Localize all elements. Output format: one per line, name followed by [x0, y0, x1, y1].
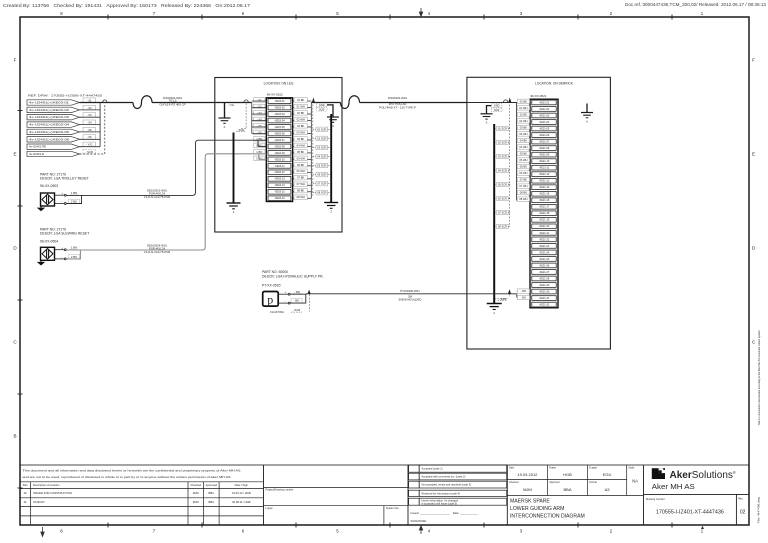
screen label 08 SCR [316, 191, 328, 195]
fold mark bottom right [701, 526, 704, 529]
ground symbol DERRICK top-right (chassis) [581, 104, 593, 124]
svg-text:-XE21-01: -XE21-01 [539, 101, 550, 104]
svg-text:-XE03-08: -XE03-08 [274, 145, 285, 148]
wire screen collector to ground (left, thick) [233, 133, 235, 204]
screen label 01 SCR [316, 127, 328, 131]
field Scale [628, 467, 638, 484]
svg-text:-XE21-31: -XE21-31 [539, 297, 550, 300]
svg-text:Approved: Approved [549, 481, 560, 484]
conductor label 1 BN (sensor 0503) [70, 191, 79, 195]
svg-text:OLFLEX-PZ 400 CP: OLFLEX-PZ 400 CP [159, 103, 185, 107]
terminal -XE03-05 [268, 125, 291, 130]
wire fan terminals to outgoing cable (right) [293, 101, 312, 198]
terminal -XE21-03 [532, 113, 556, 118]
label GND at DERRICK entry [491, 104, 502, 108]
svg-text:Rev: Rev [23, 483, 28, 487]
svg-text:05 WH: 05 WH [519, 158, 527, 162]
svg-text:Accepted (code 1): Accepted (code 1) [422, 467, 443, 471]
svg-text:p: p [267, 293, 273, 307]
svg-text:-XE21-19: -XE21-19 [539, 219, 550, 222]
fold mark arrow bottom left [41, 527, 44, 537]
sensor 96-XX-0504 part text [40, 228, 89, 244]
pressure transmitter PT-XX-0520 [263, 292, 279, 307]
terminal strip 96-XX-0521 outline [530, 99, 558, 308]
svg-text:B: B [13, 434, 16, 439]
svg-text:07 WH: 07 WH [519, 184, 527, 188]
conductor label 2 BU at -XE03-08 [254, 143, 265, 147]
grid reference letters left edge [13, 58, 17, 439]
svg-text:19.03.12 / HGB: 19.03.12 / HGB [232, 491, 251, 495]
cable label DE100321-W01 [144, 188, 170, 199]
off-page reference pointer 4x-IJ2401(+)XE03-05 [27, 129, 80, 134]
wire screen collector to ground (right, thick) [330, 114, 332, 203]
grid reference numbers bottom edge [60, 529, 704, 534]
svg-text:05 SCR: 05 SCR [317, 164, 326, 168]
svg-text:POLYRAD XT - 125 TYPE P: POLYRAD XT - 125 TYPE P [379, 105, 416, 109]
svg-text:- 01: - 01 [87, 98, 92, 102]
svg-text:-XE21-18: -XE21-18 [539, 212, 550, 215]
svg-text:03 WH: 03 WH [297, 130, 305, 134]
svg-text:PT-XX-0520: PT-XX-0520 [262, 283, 281, 287]
svg-text:is accepted until issue (code: is accepted until issue (code 5) [422, 501, 458, 505]
svg-text:96-XX-0503: 96-XX-0503 [40, 184, 58, 188]
conductor label 01 BK at -XE21-01 [517, 99, 529, 103]
off-page reference pointer 4x-IJ2401(+)XE03-02 [27, 107, 80, 112]
svg-text:E.appd: E.appd [589, 467, 597, 470]
conductor label 05 BK at -XE21-09 [517, 151, 529, 155]
grid tick marks left border [18, 111, 23, 489]
screen wire (dashed) inside LEG box left [241, 104, 246, 129]
svg-text:-XE03-11: -XE03-11 [274, 165, 285, 168]
terminal -XE21-22 [532, 237, 556, 242]
conductor label -RD at -XE21-31 [517, 289, 529, 293]
svg-text:- 03: - 03 [87, 113, 92, 117]
svg-text:- 04: - 04 [87, 121, 92, 125]
ground symbol DERRICK bottom [487, 304, 502, 316]
svg-text:-XE21-10: -XE21-10 [539, 160, 550, 163]
wire main multicore bus to ON LEG box [80, 102, 133, 104]
terminal -XE21-25 [532, 257, 556, 262]
terminal -XE21-29 [532, 283, 556, 288]
svg-text:PART NO: 50000: PART NO: 50000 [262, 270, 288, 274]
svg-text:-XE03-04: -XE03-04 [274, 119, 285, 122]
svg-text:4x-IJ2401(+)XE03-04: 4x-IJ2401(+)XE03-04 [29, 123, 70, 127]
conductor label 03 WH at -XE21-06 [517, 132, 529, 136]
cable label W100322-W01 POLYRAD [379, 96, 416, 109]
svg-text:-XE03-09: -XE03-09 [274, 152, 285, 155]
svg-text:-XE21-09: -XE21-09 [539, 154, 550, 157]
wire label 04 [83, 120, 96, 125]
terminal -XE21-12 [532, 172, 556, 177]
wire label Y/G [83, 142, 96, 147]
svg-text:-XE21-29: -XE21-29 [539, 284, 550, 287]
chassis ground sensor 0503 [37, 206, 45, 211]
conductor label 04 WH at -XE21-08 [517, 145, 529, 149]
screen pigtail arc at DERRICK entry [504, 100, 508, 103]
conductor label - 02 at -XE03-02 [254, 104, 265, 108]
wire GND conductor to ground (derrick top-left) [487, 106, 492, 114]
svg-text:07 WH: 07 WH [297, 182, 305, 186]
svg-text:03 SCR: 03 SCR [498, 155, 507, 159]
acceptance code labels [422, 467, 472, 506]
svg-text:-XE21-32: -XE21-32 [539, 303, 550, 306]
svg-text:Description of revision: Description of revision [33, 483, 60, 487]
svg-text:50926-MOULDED: 50926-MOULDED [399, 298, 422, 302]
disclaimer text [23, 469, 241, 480]
wire stubs RD/BU to terminals 31-32 [516, 291, 518, 297]
svg-text:01 BK: 01 BK [297, 98, 305, 102]
terminal -XE21-01 [532, 100, 556, 105]
svg-text:04 WH: 04 WH [519, 145, 527, 149]
terminal -XE21-31 [532, 296, 556, 301]
wire label 01 [83, 98, 96, 103]
wire transmitter pair to derrick [290, 294, 467, 303]
ground symbol LEG box top-right [327, 117, 339, 128]
terminal -XE21-17 [532, 204, 556, 209]
terminal -XE03-13 [268, 176, 291, 181]
svg-text:-XE03-05: -XE03-05 [274, 126, 285, 129]
svg-text:06 SCR: 06 SCR [498, 197, 507, 201]
conductor label 08 BK at -XE03-15 [294, 188, 307, 192]
svg-text:MJM: MJM [193, 500, 200, 504]
screen label 02 SCR (derrick) [497, 140, 509, 144]
svg-text:-XE21-16: -XE21-16 [539, 199, 550, 202]
svg-text:-XE21-23: -XE21-23 [539, 245, 550, 248]
cable label W100322-W01 OLFLEX [159, 96, 185, 106]
wire cable to LEG terminal box [152, 102, 252, 104]
svg-text:Format: Format [589, 481, 597, 484]
svg-text:DESCR: LGA SLEWING RESET: DESCR: LGA SLEWING RESET [40, 232, 89, 236]
logo / number divider [644, 494, 750, 525]
revision table grid [20, 482, 264, 525]
svg-text:04 BK: 04 BK [297, 137, 305, 141]
revision table header [23, 483, 249, 487]
svg-text:DESCR: LGA TROLLEY RESET: DESCR: LGA TROLLEY RESET [40, 176, 89, 180]
conductor label 05 BK at -XE03-09 [294, 150, 307, 154]
svg-text:1 BN: 1 BN [71, 191, 77, 195]
conductor label 04 WH at -XE03-08 [294, 143, 307, 147]
conductor label 1 BN at -XE03-07 [254, 137, 265, 141]
svg-text:05 WH: 05 WH [297, 156, 305, 160]
svg-text:-XE03-10: -XE03-10 [274, 158, 285, 161]
svg-text:Drawn: Drawn [549, 467, 557, 470]
conductor label 07 BK at -XE03-13 [294, 176, 307, 180]
terminal -XE21-02 [532, 107, 556, 112]
revision row 01 AS BUILT [24, 500, 251, 504]
field Format [589, 481, 610, 492]
field Date [509, 467, 538, 477]
svg-text:- Y/G: - Y/G [86, 143, 92, 147]
svg-text:MAERSK SPARE: MAERSK SPARE [510, 498, 550, 504]
svg-text:-XE03-13: -XE03-13 [274, 178, 285, 181]
fold mark arrow top center [419, 8, 422, 17]
conductor label 1 BN (sensor 0504) [70, 246, 79, 250]
svg-text:08 BK: 08 BK [297, 189, 305, 193]
screen label 06 SCR (derrick) [497, 196, 509, 200]
terminal -XE21-20 [532, 224, 556, 229]
svg-text:-XE03-03: -XE03-03 [274, 113, 285, 116]
svg-text:MJM: MJM [193, 491, 200, 495]
terminal -XE21-27 [532, 270, 556, 275]
svg-text:-XE21-04: -XE21-04 [539, 121, 550, 124]
svg-text:SCR: SCR [494, 108, 500, 112]
svg-text:+: + [285, 290, 287, 294]
screen label 06 SCR [316, 172, 328, 176]
screen label 08 SCR (derrick) [497, 224, 509, 228]
terminal -XE03-08 [268, 144, 291, 149]
terminal -XE21-05 [532, 126, 556, 131]
chassis ground sensor 0504 [37, 260, 45, 265]
terminal -XE21-13 [532, 178, 556, 183]
svg-text:01 SCR: 01 SCR [317, 127, 326, 131]
conductor label -BU (transmitter) [291, 298, 302, 303]
svg-text:-XE21-26: -XE21-26 [539, 264, 550, 267]
terminal -XE21-21 [532, 231, 556, 236]
label -SCR floating [291, 308, 302, 312]
off-page reference pointer 4x-IJ2401(+)XE03-04 [27, 122, 80, 127]
svg-text:-XE21-21: -XE21-21 [539, 232, 550, 235]
wire sensor 0503 pair [66, 140, 215, 203]
svg-text:Doc.ref.:3000447436,TCM_200,02: Doc.ref.:3000447436,TCM_200,02/ Released… [625, 2, 767, 7]
off-page reference pointer 4x-IJ2401(+)XE03-03 [27, 115, 80, 120]
conductor label 06 BK at -XE03-11 [294, 163, 307, 167]
terminal -XE21-11 [532, 165, 556, 170]
wire pressure transmitter pair into derrick [467, 293, 517, 295]
conductor label - 06 at -XE03-06 [254, 130, 265, 134]
svg-text:08 BK: 08 BK [520, 191, 528, 195]
svg-text:NA: NA [632, 479, 638, 484]
svg-text:-XE03-14: -XE03-14 [274, 184, 285, 187]
terminal -XE21-06 [532, 133, 556, 138]
svg-text:-XE21-30: -XE21-30 [539, 290, 550, 293]
pin - sensor 0504 [55, 258, 67, 260]
conductor label - 03 at -XE03-03 [254, 111, 265, 115]
svg-text:4x-IJ2401(+)XE03-02: 4x-IJ2401(+)XE03-02 [29, 108, 70, 112]
conductor label - 01 at -XE03-01 [254, 98, 265, 102]
screen label 03 SCR [316, 145, 328, 149]
pin - sensor 0503 [55, 203, 67, 205]
svg-text:-XE21-27: -XE21-27 [539, 271, 550, 274]
svg-text:-XE21-06: -XE21-06 [539, 134, 550, 137]
svg-text:96-XX-0522: 96-XX-0522 [267, 93, 283, 97]
screen pigtail arrow at PT entry [508, 289, 511, 294]
terminal -XE03-14 [268, 183, 291, 188]
svg-text:- Y/G: - Y/G [228, 103, 234, 107]
drawing title text [510, 498, 585, 519]
svg-text:07 SCR: 07 SCR [498, 211, 507, 215]
svg-text:- SCR: - SCR [237, 128, 245, 132]
terminal -XE21-10 [532, 159, 556, 164]
svg-text:01 WH: 01 WH [297, 104, 305, 108]
conductor label 2 BU (sensor 0503) [69, 199, 80, 204]
dashed screen stub to collector (derrick bottom) [494, 294, 509, 299]
terminal -XE03-15 [268, 189, 291, 194]
acceptance code boxes [409, 465, 507, 505]
svg-text:-XE21-28: -XE21-28 [539, 277, 550, 280]
issued / signature lines [411, 511, 479, 523]
svg-text:File: 4447436.dwg: File: 4447436.dwg [757, 496, 761, 523]
svg-text:Accepted with comments inc. (c: Accepted with comments inc. (code 2) [422, 475, 466, 479]
svg-text:01 BK: 01 BK [520, 99, 528, 103]
screen pigtail arc at cable W100322 [103, 100, 107, 103]
svg-text:02: 02 [740, 510, 746, 516]
svg-text:SIGNATURE:: SIGNATURE: [411, 519, 427, 523]
name grid lines [507, 465, 643, 496]
wire bus collecting pointer rows [80, 103, 101, 147]
off-page reference pointer 4x-IJ2401(+)XE03-06 [27, 137, 80, 142]
wire label 06 [83, 135, 96, 140]
grid tick marks top border [108, 15, 672, 20]
screen label 07 SCR (derrick) [497, 210, 509, 214]
cable break symbol W100322-W01 (left) [133, 96, 152, 109]
wire earth conductor to ground [224, 103, 226, 119]
pin + sensor 0503 [55, 194, 67, 196]
svg-text:-XE03-12: -XE03-12 [274, 171, 285, 174]
sensor 96-XX-0503 part text [40, 172, 89, 188]
svg-text:F: F [752, 58, 755, 63]
conductor label 06 WH at -XE21-12 [517, 171, 529, 175]
wire incoming bus down feed (derrick) [467, 102, 518, 200]
svg-text:System No.: System No. [386, 506, 400, 510]
svg-text:30.08.11 / HGB: 30.08.11 / HGB [232, 500, 251, 504]
svg-text:GND: GND [319, 103, 325, 107]
terminal -XE21-04 [532, 120, 556, 125]
label -SCR floating screen (derrick) [498, 297, 508, 301]
svg-text:06 BK: 06 BK [297, 163, 305, 167]
label GND at LEG exit [316, 103, 327, 107]
svg-text:EGU: EGU [603, 472, 612, 477]
svg-text:96-XX-0521: 96-XX-0521 [530, 94, 546, 98]
conductor label 04 BK at -XE21-07 [517, 138, 529, 142]
svg-text:4x-IJ2401-PE: 4x-IJ2401-PE [29, 145, 46, 149]
svg-text:4x-IJ2401(+)XE03-01: 4x-IJ2401(+)XE03-01 [29, 101, 70, 105]
svg-text:01: 01 [24, 500, 27, 504]
svg-text:FLOATING: FLOATING [270, 310, 284, 314]
conductor label 03 BK at -XE21-05 [517, 125, 529, 129]
terminal -XE03-12 [268, 170, 291, 175]
svg-text:BBA: BBA [209, 500, 215, 504]
svg-text:GND: GND [494, 104, 500, 108]
svg-text:-XE21-25: -XE21-25 [539, 258, 550, 261]
screen bus (dashed) derrick [509, 105, 511, 227]
terminal -XE03-04 [268, 118, 291, 123]
proximity sensor 96-XX-0504 [41, 247, 55, 260]
svg-text:-XE21-08: -XE21-08 [539, 147, 550, 150]
conductor label 06 BK at -XE21-11 [517, 164, 529, 168]
svg-text:03 BK: 03 BK [520, 125, 528, 129]
svg-text:A: A [224, 125, 226, 129]
svg-text:07 BK: 07 BK [297, 176, 305, 180]
svg-text:- SCR: - SCR [293, 308, 301, 312]
svg-text:Drawing number: Drawing number [646, 497, 665, 501]
terminal -XE03-10 [268, 157, 291, 162]
terminal -XE21-19 [532, 217, 556, 222]
svg-text:This is a document to be handl: This is a document to be handled accordi… [757, 331, 761, 426]
conductor label 02 WH at -XE21-04 [517, 119, 529, 123]
terminal -XE21-32 [532, 302, 556, 307]
cable label PT100330-W01 [399, 289, 422, 302]
svg-text:4x-IJ2401(+)XE03-03: 4x-IJ2401(+)XE03-03 [29, 115, 70, 119]
svg-text:- 06: - 06 [87, 135, 92, 139]
svg-text:+: + [61, 246, 63, 250]
terminal -XE21-15 [532, 191, 556, 196]
screen label 04 SCR (derrick) [497, 168, 509, 172]
svg-text:04 SCR: 04 SCR [317, 154, 326, 158]
svg-text:04 WH: 04 WH [297, 143, 305, 147]
screen pigtail arc at LEG entry [244, 100, 248, 103]
svg-text:- RD: - RD [294, 290, 300, 294]
ground symbol LEG box top-left [219, 118, 231, 129]
svg-text:Date / Sign: Date / Sign [235, 483, 249, 487]
conductor label 06 WH at -XE03-12 [294, 169, 307, 173]
conductor label 07 WH at -XE03-14 [294, 182, 307, 186]
svg-text:Issued: ____________________: Issued: ____________________ Date: _____… [411, 511, 479, 515]
svg-text:-XE03-02: -XE03-02 [274, 106, 285, 109]
cable break symbol W100322-W01 (right) [341, 96, 360, 109]
conductor label 01 WH at -XE03-02 [294, 104, 307, 108]
conductor label 05 WH at -XE03-10 [294, 156, 307, 160]
conductor label 08 BK at -XE21-15 [517, 190, 529, 194]
conductor label 07 WH at -XE21-14 [517, 184, 529, 188]
svg-text:Received for information (code: Received for information (code 4) [422, 491, 460, 495]
svg-text:INTERCONNECTION DIAGRAM: INTERCONNECTION DIAGRAM [510, 513, 585, 519]
screen label 05 SCR [316, 163, 328, 167]
conductor label 05 WH at -XE21-10 [517, 158, 529, 162]
svg-text:08 SCR: 08 SCR [498, 225, 507, 229]
svg-text:Checked: Checked [509, 481, 519, 484]
conductor label 07 BK at -XE21-13 [517, 177, 529, 181]
svg-text:Approved: Approved [205, 483, 217, 487]
svg-text:REF. DRW: 170555-I-IZ006-XT-4: REF. DRW: 170555-I-IZ006-XT-4447455 [28, 93, 102, 97]
svg-text:HGB: HGB [563, 472, 572, 477]
svg-text:02 WH: 02 WH [519, 119, 527, 123]
terminal -XE21-08 [532, 146, 556, 151]
conductor label 02 BK at -XE03-03 [294, 111, 307, 115]
svg-text:- SCR: - SCR [85, 150, 93, 154]
screen bus (dashed) right of strip [312, 105, 314, 196]
svg-text:LOCATION: ON LEG: LOCATION: ON LEG [264, 81, 294, 85]
floating screen dashed line [309, 295, 311, 312]
svg-text:02 BK: 02 BK [297, 111, 305, 115]
svg-text:03 BK: 03 BK [297, 124, 305, 128]
svg-text:04 BK: 04 BK [520, 138, 528, 142]
svg-text:4x-IJ2401(+)XE03-05: 4x-IJ2401(+)XE03-05 [29, 130, 70, 134]
field Checked [509, 481, 532, 492]
svg-text:08 WH: 08 WH [297, 195, 305, 199]
conductor label 01 WH at -XE21-02 [517, 106, 529, 110]
svg-text:Created By: 113756 Checked B: Created By: 113756 Checked By: 191431 Ap… [3, 3, 251, 8]
svg-text:02 SCR: 02 SCR [317, 136, 326, 140]
wire label 03 [83, 113, 96, 118]
terminal -XE03-09 [268, 151, 291, 156]
svg-text:- BU: - BU [294, 299, 300, 303]
svg-text:-XE03-15: -XE03-15 [274, 191, 285, 194]
svg-text:-XE21-17: -XE21-17 [539, 206, 550, 209]
svg-text:W100322-W01: W100322-W01 [388, 96, 408, 100]
svg-text:F: F [14, 58, 17, 63]
svg-text:+: + [61, 191, 63, 195]
conductor label 03 BK at -XE03-05 [294, 124, 307, 128]
svg-text:06 WH: 06 WH [519, 171, 527, 175]
project drawing number box [264, 487, 409, 525]
conductor label 04 BK at -XE03-07 [294, 137, 307, 141]
conductor label -BU at -XE21-32 [517, 295, 529, 299]
svg-text:-XE21-24: -XE21-24 [539, 251, 550, 254]
svg-text:1 BN: 1 BN [71, 246, 77, 250]
svg-text:-XE21-22: -XE21-22 [539, 238, 550, 241]
svg-text:02 SCR: 02 SCR [498, 141, 507, 145]
svg-text:01 WH: 01 WH [519, 106, 527, 110]
